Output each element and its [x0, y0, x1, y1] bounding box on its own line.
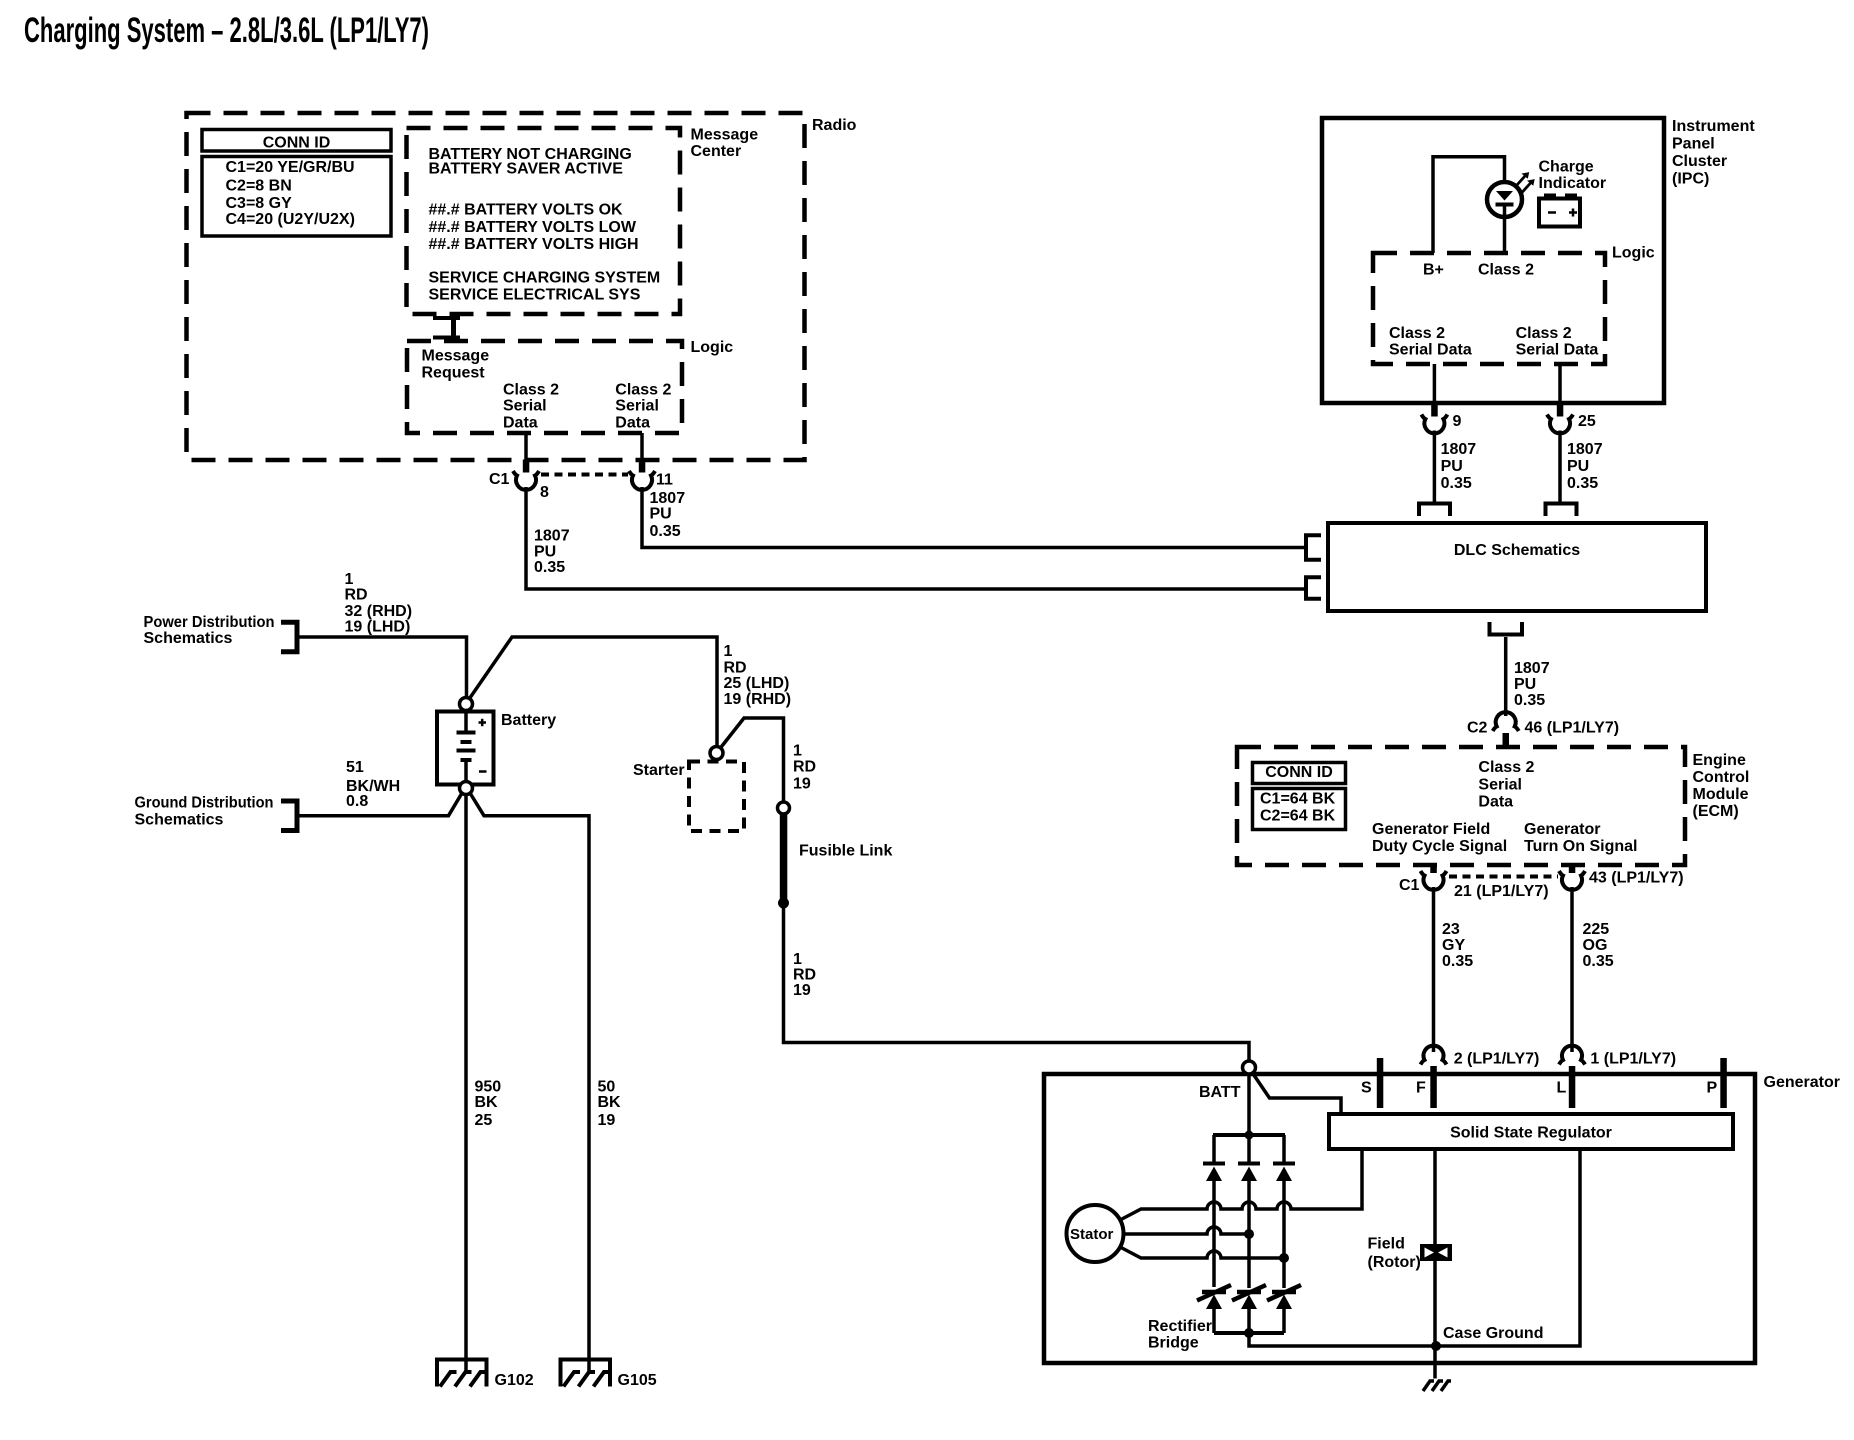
- connector C2 pin 46: [1467, 712, 1619, 747]
- rectifier diode top 1: [1203, 1135, 1225, 1181]
- svg-text:BATTERY SAVER ACTIVE: BATTERY SAVER ACTIVE: [429, 161, 624, 178]
- svg-text:2 (LP1/LY7): 2 (LP1/LY7): [1454, 1050, 1540, 1067]
- svg-text:Control: Control: [1693, 769, 1750, 786]
- svg-text:Serial: Serial: [1478, 776, 1522, 793]
- svg-text:F: F: [1416, 1080, 1426, 1097]
- generator box: [1044, 1074, 1840, 1363]
- svg-text:(Rotor): (Rotor): [1368, 1254, 1421, 1271]
- svg-text:Turn On Signal: Turn On Signal: [1524, 838, 1637, 855]
- svg-text:(ECM): (ECM): [1693, 803, 1739, 820]
- wire 1807 PU 0.35 DLC to C2: [1506, 637, 1550, 716]
- stator: [1067, 1205, 1124, 1262]
- junction top bus: [1245, 1131, 1254, 1140]
- svg-text:GY: GY: [1442, 937, 1465, 954]
- svg-text:Ground Distribution: Ground Distribution: [135, 794, 274, 811]
- starter box: [633, 747, 744, 832]
- rectifier diode lower 3: [1267, 1285, 1301, 1333]
- svg-text:Battery: Battery: [501, 712, 556, 729]
- junction case ground: [1431, 1341, 1441, 1351]
- svg-text:25 (LHD): 25 (LHD): [724, 675, 790, 692]
- svg-text:32 (RHD): 32 (RHD): [345, 603, 413, 620]
- svg-text:C4=20 (U2Y/U2X): C4=20 (U2Y/U2X): [226, 211, 355, 228]
- rectifier column wires: [1214, 1181, 1284, 1288]
- svg-text:G105: G105: [618, 1372, 657, 1389]
- ground G105: [561, 1360, 657, 1389]
- svg-text:19 (LHD): 19 (LHD): [345, 619, 411, 636]
- wire label 1 RD 25/19: [724, 643, 792, 708]
- radio pin 11 connector: [629, 433, 673, 490]
- svg-text:SERVICE CHARGING SYSTEM: SERVICE CHARGING SYSTEM: [429, 269, 661, 286]
- wire battery to starter feed: [470, 637, 718, 746]
- svg-text:Class 2: Class 2: [503, 381, 559, 398]
- radio logic labels: [422, 348, 672, 432]
- svg-text:RD: RD: [793, 966, 816, 983]
- svg-text:L: L: [1557, 1080, 1567, 1097]
- svg-text:Message: Message: [691, 126, 759, 143]
- svg-text:19: 19: [598, 1112, 616, 1129]
- solid state regulator: [1329, 1114, 1733, 1149]
- DLC left entry bracket (from pin 11 wire): [1306, 535, 1321, 559]
- node battery positive: [460, 698, 473, 711]
- wire 1807 PU 0.35 pin 25 to DLC: [1560, 431, 1603, 503]
- wire BATT node to rectifier top bus: [1247, 1074, 1251, 1135]
- svg-text:0.35: 0.35: [1567, 475, 1598, 492]
- svg-text:19 (RHD): 19 (RHD): [724, 691, 792, 708]
- svg-text:BK: BK: [475, 1094, 499, 1111]
- svg-text:CONN ID: CONN ID: [1265, 764, 1333, 781]
- svg-text:CONN ID: CONN ID: [263, 135, 331, 152]
- svg-text:Case Ground: Case Ground: [1443, 1325, 1543, 1342]
- svg-text:##.# BATTERY VOLTS LOW: ##.# BATTERY VOLTS LOW: [429, 219, 637, 236]
- svg-text:1 (LP1/LY7): 1 (LP1/LY7): [1590, 1050, 1676, 1067]
- wire battery negative to G105 branch: [470, 793, 589, 1372]
- stator phase wire B (to middle leg): [1124, 1227, 1255, 1239]
- battery: [437, 711, 556, 786]
- svg-text:Data: Data: [503, 414, 538, 431]
- svg-text:Stator: Stator: [1070, 1226, 1114, 1243]
- ECM pin labels: [1372, 759, 1637, 855]
- wire starter node to fusible link: [720, 718, 816, 802]
- svg-text:Class 2: Class 2: [1478, 759, 1534, 776]
- ECM connector C1 pin 21: [1399, 864, 1549, 900]
- terminal pin L: [1557, 1066, 1576, 1108]
- connector 1 (LP1/LY7) at generator L: [1559, 1046, 1676, 1068]
- svg-text:0.35: 0.35: [534, 559, 565, 576]
- wire 23 GY 0.35 (generator field duty cycle): [1434, 887, 1474, 1052]
- svg-text:Power Distribution: Power Distribution: [144, 614, 275, 631]
- svg-text:Duty Cycle Signal: Duty Cycle Signal: [1372, 838, 1507, 855]
- svg-text:1807: 1807: [1567, 441, 1603, 458]
- rectifier diode top 2: [1238, 1135, 1260, 1181]
- svg-text:1: 1: [724, 643, 733, 660]
- svg-text:C2=8 BN: C2=8 BN: [226, 178, 292, 195]
- svg-text:PU: PU: [1441, 458, 1463, 475]
- svg-text:0.35: 0.35: [1441, 475, 1472, 492]
- svg-text:C1=64 BK: C1=64 BK: [1260, 791, 1336, 808]
- wire 950 BK 25 to G102: [466, 795, 501, 1373]
- svg-text:23: 23: [1442, 921, 1460, 938]
- svg-text:Field: Field: [1368, 1236, 1405, 1253]
- terminal pin S: [1361, 1058, 1383, 1108]
- message request connector (I-beam between message center and logic): [433, 314, 460, 341]
- svg-text:Indicator: Indicator: [1539, 175, 1607, 192]
- svg-text:C2: C2: [1467, 719, 1488, 736]
- dashed connector line C1: [541, 473, 628, 477]
- svg-text:Serial Data: Serial Data: [1516, 342, 1599, 359]
- svg-text:(IPC): (IPC): [1672, 170, 1709, 187]
- svg-text:0.8: 0.8: [346, 793, 368, 810]
- svg-text:PU: PU: [1514, 676, 1536, 693]
- radio pin 8 connector C1: [489, 433, 549, 501]
- wire 1 RD 32/19 battery feed: [298, 571, 467, 698]
- svg-text:RD: RD: [724, 659, 747, 676]
- svg-text:Generator: Generator: [1524, 821, 1600, 838]
- ECM module box: [1237, 747, 1749, 865]
- IPC logic box: [1373, 244, 1655, 364]
- svg-text:BK: BK: [598, 1094, 622, 1111]
- ECM CONN ID table: [1253, 763, 1346, 830]
- svg-text:C1: C1: [1399, 877, 1420, 894]
- field rotor winding: [1368, 1149, 1453, 1271]
- svg-text:C3=8 GY: C3=8 GY: [226, 195, 293, 212]
- radio logic box: [407, 339, 733, 433]
- svg-text:G102: G102: [495, 1372, 534, 1389]
- svg-text:P: P: [1707, 1080, 1718, 1097]
- svg-text:Logic: Logic: [691, 339, 734, 356]
- svg-text:Message: Message: [422, 348, 490, 365]
- svg-text:Charging System – 2.8L/3.6L (L: Charging System – 2.8L/3.6L (LP1/LY7): [24, 11, 429, 50]
- svg-text:21 (LP1/LY7): 21 (LP1/LY7): [1454, 883, 1549, 900]
- svg-text:Solid State Regulator: Solid State Regulator: [1450, 1124, 1612, 1141]
- rectifier bridge bottom bus: [1214, 1331, 1284, 1335]
- ground G102: [437, 1360, 534, 1389]
- wire BATT to regulator: [1253, 1073, 1342, 1114]
- svg-text:RD: RD: [793, 759, 816, 776]
- svg-text:Starter: Starter: [633, 762, 685, 779]
- svg-text:Instrument: Instrument: [1672, 118, 1755, 135]
- junction bottom bus to case ground: [1244, 1328, 1254, 1338]
- svg-text:Generator Field: Generator Field: [1372, 821, 1490, 838]
- svg-text:RD: RD: [345, 586, 368, 603]
- charge indicator LED: [1487, 159, 1606, 254]
- svg-text:C2=64 BK: C2=64 BK: [1260, 808, 1336, 825]
- svg-text:Radio: Radio: [812, 117, 857, 134]
- svg-text:OG: OG: [1583, 937, 1608, 954]
- svg-text:Serial Data: Serial Data: [1389, 342, 1472, 359]
- svg-text:Serial: Serial: [615, 397, 659, 414]
- svg-text:Schematics: Schematics: [144, 630, 233, 647]
- IPC pin 9 connector: [1421, 364, 1461, 433]
- svg-text:0.35: 0.35: [1514, 692, 1545, 709]
- DLC Schematics box: [1328, 523, 1706, 611]
- svg-text:225: 225: [1583, 921, 1610, 938]
- wire 1807 PU 0.35 from pin 11 to DLC: [642, 487, 1304, 548]
- svg-text:1807: 1807: [1514, 660, 1550, 677]
- svg-text:BATT: BATT: [1199, 1084, 1241, 1101]
- svg-text:950: 950: [475, 1078, 502, 1095]
- power distribution bracket: [144, 614, 298, 652]
- svg-text:8: 8: [540, 484, 549, 501]
- svg-text:Fusible Link: Fusible Link: [799, 842, 892, 859]
- svg-text:1807: 1807: [1441, 441, 1477, 458]
- svg-text:Engine: Engine: [1693, 752, 1746, 769]
- rectifier diode top 3: [1273, 1135, 1295, 1181]
- DLC left entry bracket (from pin 8 wire): [1306, 577, 1321, 598]
- rectifier diode lower 1: [1197, 1285, 1231, 1333]
- svg-text:1: 1: [793, 743, 802, 760]
- ECM connector pin 43: [1559, 864, 1684, 890]
- svg-text:51: 51: [346, 759, 364, 776]
- svg-text:Request: Request: [422, 365, 486, 382]
- svg-text:Bridge: Bridge: [1148, 1334, 1199, 1351]
- svg-text:Center: Center: [691, 143, 742, 160]
- radio CONN ID table: [202, 130, 391, 237]
- stator phase wire A (to regulator, hops over columns): [1121, 1149, 1362, 1220]
- svg-text:C1=20 YE/GR/BU: C1=20 YE/GR/BU: [226, 159, 355, 176]
- svg-text:Class 2: Class 2: [615, 381, 671, 398]
- svg-text:1: 1: [345, 571, 354, 588]
- stator phase wire C (to right leg): [1121, 1248, 1289, 1264]
- svg-text:1: 1: [793, 951, 802, 968]
- wire 1 RD 19 fusible link to generator BATT: [784, 908, 1250, 1061]
- radio message center box: [407, 126, 759, 314]
- wire 1807 PU 0.35 pin 9 to DLC: [1434, 431, 1476, 503]
- svg-text:50: 50: [598, 1078, 616, 1095]
- IPC pin 25 connector: [1547, 364, 1596, 433]
- DLC top entry bracket (pin 9 side): [1419, 504, 1450, 517]
- rectifier diode lower 2: [1232, 1285, 1266, 1333]
- svg-text:Charge: Charge: [1539, 159, 1594, 176]
- terminal pin P: [1707, 1058, 1727, 1108]
- rectifier bridge label: [1148, 1318, 1212, 1352]
- node battery negative: [460, 782, 473, 795]
- svg-text:46 (LP1/LY7): 46 (LP1/LY7): [1525, 719, 1620, 736]
- IPC internal wire B+ branch: [1433, 157, 1505, 253]
- battery icon (charge indicator legend): [1539, 194, 1580, 227]
- svg-text:1807: 1807: [534, 528, 570, 545]
- svg-text:Class 2: Class 2: [1478, 261, 1534, 278]
- svg-text:Data: Data: [1478, 793, 1513, 810]
- message center display text: [429, 146, 661, 303]
- connector 2 (LP1/LY7) at generator F: [1421, 1046, 1540, 1068]
- svg-text:SERVICE ELECTRICAL SYS: SERVICE ELECTRICAL SYS: [429, 286, 641, 303]
- svg-text:0.35: 0.35: [1583, 953, 1614, 970]
- rectifier bridge top bus: [1213, 1133, 1285, 1137]
- svg-text:25: 25: [1578, 413, 1596, 430]
- ground symbol (generator case): [1423, 1381, 1451, 1391]
- svg-text:9: 9: [1453, 413, 1462, 430]
- svg-text:Class 2: Class 2: [1516, 325, 1572, 342]
- svg-text:PU: PU: [1567, 458, 1589, 475]
- terminal pin F: [1416, 1066, 1437, 1108]
- svg-text:11: 11: [656, 472, 673, 489]
- svg-text:##.# BATTERY VOLTS OK: ##.# BATTERY VOLTS OK: [429, 202, 624, 219]
- wire labels 50 BK 19: [598, 1078, 622, 1129]
- svg-text:Panel: Panel: [1672, 135, 1715, 152]
- DLC bottom exit bracket: [1490, 622, 1523, 635]
- svg-text:PU: PU: [534, 544, 556, 561]
- node BATT terminal: [1199, 1061, 1256, 1101]
- svg-text:Logic: Logic: [1612, 244, 1655, 261]
- IPC module box: [1322, 118, 1755, 403]
- svg-text:19: 19: [793, 982, 811, 999]
- svg-text:B+: B+: [1423, 261, 1444, 278]
- dashed connector line ECM C1: [1449, 875, 1558, 879]
- svg-text:##.# BATTERY VOLTS HIGH: ##.# BATTERY VOLTS HIGH: [429, 236, 639, 253]
- svg-text:Serial: Serial: [503, 397, 547, 414]
- svg-text:Data: Data: [615, 414, 650, 431]
- svg-text:Generator: Generator: [1764, 1074, 1840, 1091]
- svg-text:0.35: 0.35: [650, 523, 681, 540]
- IPC logic labels: [1389, 261, 1598, 358]
- wire 1807 PU 0.35 from pin 8 to DLC: [526, 487, 1304, 589]
- svg-text:Class 2: Class 2: [1389, 325, 1445, 342]
- svg-text:DLC Schematics: DLC Schematics: [1454, 542, 1580, 559]
- svg-text:S: S: [1361, 1080, 1372, 1097]
- svg-text:Module: Module: [1693, 786, 1749, 803]
- svg-text:0.35: 0.35: [1442, 953, 1473, 970]
- svg-text:1807: 1807: [650, 490, 686, 507]
- svg-text:Schematics: Schematics: [135, 811, 224, 828]
- svg-text:43 (LP1/LY7): 43 (LP1/LY7): [1589, 869, 1684, 886]
- case ground wire: [1249, 1149, 1580, 1346]
- radio module box: [187, 113, 857, 460]
- svg-text:PU: PU: [650, 506, 672, 523]
- DLC top entry bracket (pin 25 side): [1546, 504, 1577, 517]
- ground distribution bracket: [135, 794, 298, 830]
- svg-text:Rectifier: Rectifier: [1148, 1318, 1212, 1335]
- svg-text:19: 19: [793, 776, 811, 793]
- wire 225 OG 0.35 (generator turn on signal): [1572, 887, 1614, 1052]
- wire field to case ground and chassis: [1433, 1261, 1437, 1379]
- svg-text:25: 25: [475, 1112, 493, 1129]
- svg-text:C1: C1: [489, 471, 510, 488]
- fusible link: [778, 802, 893, 909]
- wire 51 BK/WH 0.8 ground lead: [298, 759, 462, 816]
- svg-text:Cluster: Cluster: [1672, 153, 1727, 170]
